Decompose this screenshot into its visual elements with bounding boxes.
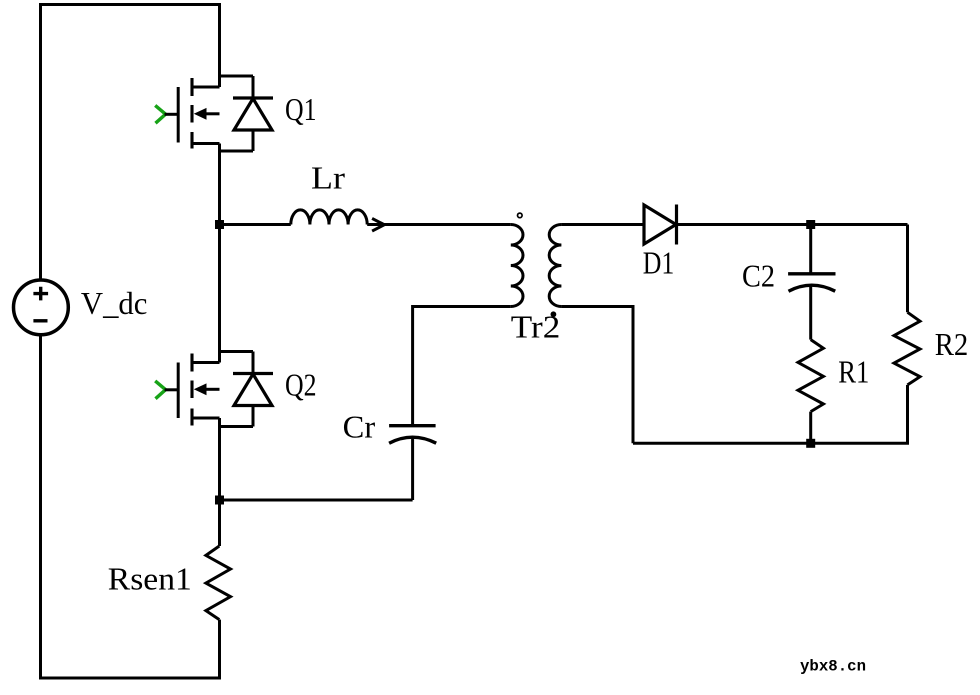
resistor R2: [894, 312, 920, 385]
node C junction (D1 cathode / C2 / R2): [806, 220, 815, 229]
Q2 body arrowhead: [194, 383, 207, 395]
Q2 body lead: [205, 388, 220, 391]
wire left rail lower (V_dc minus terminal to bottom bus): [39, 335, 42, 679]
wire capacitor Cr to node B: [220, 499, 413, 502]
C2 straight plate: [788, 272, 835, 275]
V_dc minus sign: [33, 319, 47, 322]
Q2 gate plate: [177, 363, 180, 419]
Q1 drain lead: [192, 86, 220, 89]
Q2 gate lead: [165, 388, 179, 391]
node D junction (R1 / secondary return bus): [806, 439, 815, 448]
wire diode D1 cathode to R2 top through node C: [677, 223, 908, 226]
Q1 body arrowhead: [194, 108, 207, 120]
C2 curved plate: [789, 285, 836, 291]
wire top bus (V_dc plus to Q1 drain): [39, 3, 221, 6]
svg-text:Q2: Q2: [285, 367, 317, 403]
Q1 gate plate: [177, 87, 180, 143]
svg-text:D1: D1: [643, 245, 675, 281]
wire center rail (Q1 source to Q2 drain through node A): [218, 144, 221, 363]
wire resistor R1 to node D: [809, 412, 812, 444]
Q1 gate input marker (green): [155, 105, 165, 123]
transformer Tr2 secondary winding: [549, 225, 561, 307]
Q2 body diode cathode bar: [233, 372, 273, 375]
wire resistor R2 to bottom return bus: [906, 385, 909, 443]
svg-text:ybx8.cn: ybx8.cn: [800, 658, 866, 676]
svg-text:R1: R1: [838, 354, 869, 390]
Q2 body diode bottom wire: [220, 425, 254, 428]
resistor Rsen1: [206, 546, 231, 620]
svg-text:C2: C2: [742, 258, 775, 294]
transformer Tr2 primary polarity dot: [518, 213, 523, 218]
wire resistor Rsen1 to bottom bus: [218, 620, 221, 680]
Q1 gate lead: [165, 113, 179, 116]
transistor Q1 (N-MOSFET with body diode): [155, 76, 273, 151]
wire node C bus to resistor R2: [906, 225, 909, 313]
Q2 body diode triangle: [234, 374, 272, 406]
Cr straight plate: [389, 424, 436, 427]
transformer Tr2 secondary polarity dot: [551, 311, 557, 317]
Q1 body diode bottom wire: [220, 150, 254, 153]
wire bottom return bus (secondary to R2): [633, 442, 909, 445]
Q2 body diode top wire: [220, 350, 254, 353]
wire primary bottom to capacitor Cr: [413, 307, 511, 426]
capacitor C2: [788, 274, 835, 340]
wire bottom bus: [39, 677, 221, 680]
wire secondary top to diode D1 anode: [561, 223, 644, 226]
node B junction (Q2 source / Cr return / Rsen1): [215, 496, 224, 505]
Q1 body diode top wire: [220, 75, 254, 78]
current direction arrow on wire: [372, 218, 384, 231]
transistor Q2 (N-MOSFET with body diode): [155, 352, 273, 427]
V_dc circle body: [14, 280, 69, 335]
svg-text:V_dc: V_dc: [81, 285, 147, 321]
wire inductor Lr to transformer primary: [367, 223, 511, 226]
wire node A to inductor Lr: [220, 223, 291, 226]
wire center rail (top bus to Q1 drain): [218, 3, 221, 87]
voltage source V_dc: [14, 280, 69, 335]
V_dc plus sign: [33, 287, 48, 301]
C2 bottom lead to R1: [809, 285, 812, 340]
D1 cathode bar: [675, 205, 678, 245]
capacitor Cr: [389, 426, 436, 500]
wire left rail upper (top bus to V_dc plus terminal): [39, 3, 42, 280]
resistor R1: [798, 340, 823, 412]
Q2 drain lead: [192, 361, 220, 364]
Q1 body lead: [205, 112, 220, 115]
inductor Lr: [291, 210, 367, 225]
Q2 body diode leads: [252, 352, 255, 427]
svg-text:Rsen1: Rsen1: [108, 561, 192, 597]
wire node C to capacitor C2: [809, 225, 812, 274]
Q2 gate input marker (green): [155, 381, 165, 399]
Q1 body diode cathode bar: [233, 96, 273, 99]
node A junction (half-bridge midpoint): [215, 220, 224, 229]
Q1 body diode leads: [252, 76, 255, 151]
Cr bottom lead: [411, 437, 414, 500]
svg-text:Cr: Cr: [343, 409, 376, 445]
D1 triangle (anode): [644, 205, 676, 244]
Q2 channel segments: [190, 354, 193, 426]
svg-text:Tr2: Tr2: [511, 309, 561, 345]
wire secondary bottom return: [561, 307, 633, 444]
transformer Tr2 primary winding: [511, 225, 523, 307]
Q1 body diode triangle: [234, 99, 272, 131]
Cr curved plate: [389, 437, 436, 443]
Q1 channel segments: [190, 78, 193, 149]
wire center rail (Q2 source to resistor Rsen1 through node B): [218, 418, 221, 546]
Q1 source lead: [192, 142, 220, 145]
svg-text:R2: R2: [935, 326, 969, 362]
diode D1: [644, 205, 677, 245]
svg-text:Lr: Lr: [311, 160, 345, 196]
svg-text:Q1: Q1: [285, 91, 317, 127]
Q2 source lead: [192, 417, 220, 420]
